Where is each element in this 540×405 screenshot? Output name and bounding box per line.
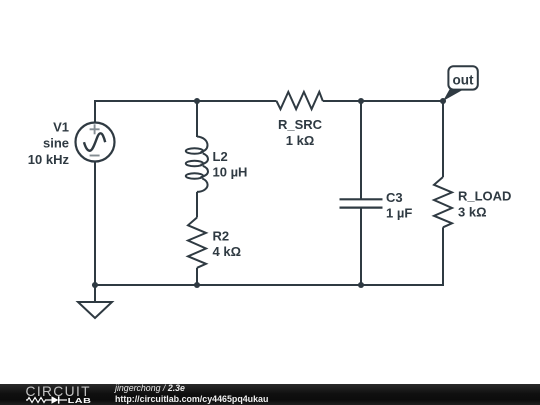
junction: top wire / L2 branch xyxy=(194,98,200,104)
wire middle top stub xyxy=(196,101,198,137)
resistor R_LOAD xyxy=(434,177,452,227)
svg-text:R2: R2 xyxy=(213,229,230,244)
svg-text:L2: L2 xyxy=(213,149,228,164)
wire R2 bottom xyxy=(196,268,198,285)
svg-text:sine: sine xyxy=(43,136,69,151)
svg-text:V1: V1 xyxy=(53,120,69,135)
wire top-right horizontal xyxy=(323,100,444,102)
svg-text:R_SRC: R_SRC xyxy=(278,117,323,132)
wire top-left horizontal xyxy=(94,100,277,102)
junction: top wire / C3 branch xyxy=(358,98,364,104)
wire R_LOAD top xyxy=(442,101,444,177)
wire C3 top xyxy=(360,101,362,199)
node flag out xyxy=(443,66,478,101)
L2 label xyxy=(213,149,248,180)
wire bottom rail xyxy=(95,284,444,286)
R_LOAD label xyxy=(458,189,511,220)
R2 label xyxy=(213,229,242,260)
V1 label xyxy=(28,120,70,167)
resistor R_SRC xyxy=(277,92,323,109)
svg-text:C3: C3 xyxy=(386,190,403,205)
svg-text:1 µF: 1 µF xyxy=(386,206,412,221)
svg-text:out: out xyxy=(453,72,474,87)
junction: node out / R_LOAD branch xyxy=(440,98,446,104)
svg-text:LAB: LAB xyxy=(68,397,92,405)
svg-text:10 µH: 10 µH xyxy=(213,165,248,180)
wire V1 top stub xyxy=(94,100,96,123)
footer bar xyxy=(0,384,540,405)
wire between L2 and R2 xyxy=(196,192,198,218)
wire C3 bottom xyxy=(360,208,362,285)
wire V1 bottom to ground rail xyxy=(94,162,96,286)
svg-text:R_LOAD: R_LOAD xyxy=(458,189,511,204)
junction: bottom rail / V1-ground xyxy=(92,282,98,288)
junction: bottom rail / C3 branch xyxy=(358,282,364,288)
junction: bottom rail / R2 branch xyxy=(194,282,200,288)
wire R_LOAD bottom xyxy=(442,227,444,286)
voltage source V1 xyxy=(76,123,115,162)
svg-text:4 kΩ: 4 kΩ xyxy=(213,244,242,259)
C3 label xyxy=(386,190,412,221)
R_SRC label xyxy=(278,117,323,148)
inductor L2 xyxy=(186,137,208,192)
ground xyxy=(78,285,112,318)
svg-text:10 kHz: 10 kHz xyxy=(28,152,70,167)
svg-text:3 kΩ: 3 kΩ xyxy=(458,205,487,220)
capacitor C3 xyxy=(340,199,383,207)
resistor R2 xyxy=(188,218,206,268)
svg-text:1 kΩ: 1 kΩ xyxy=(286,133,315,148)
